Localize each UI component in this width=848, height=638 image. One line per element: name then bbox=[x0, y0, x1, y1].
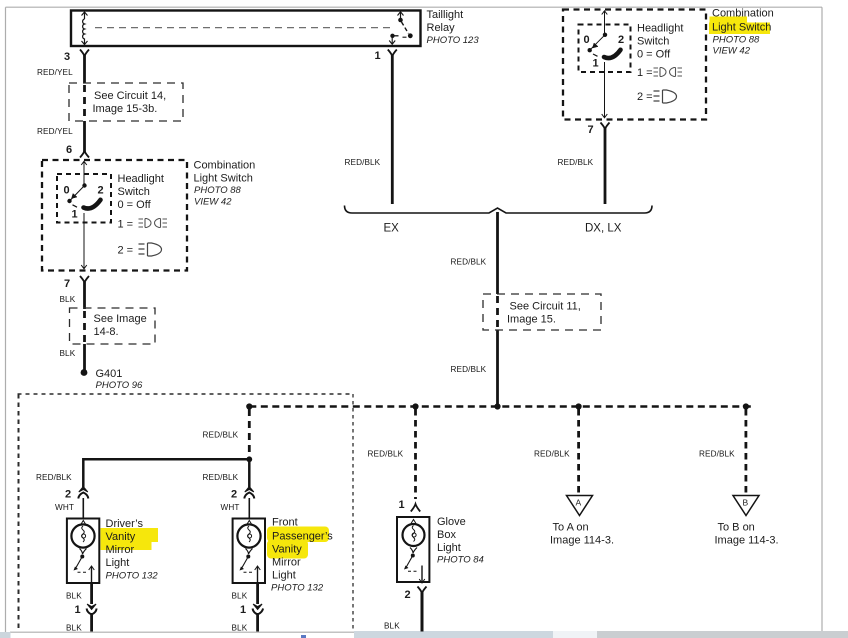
svg-text:RED/BLK: RED/BLK bbox=[345, 158, 381, 167]
svg-text:See Circuit 14,: See Circuit 14, bbox=[94, 90, 166, 102]
svg-text:PHOTO 96: PHOTO 96 bbox=[96, 380, 144, 391]
svg-text:Light Switch: Light Switch bbox=[712, 22, 771, 34]
svg-text:2: 2 bbox=[405, 589, 411, 601]
headlight switch S1 (left) outer box bbox=[42, 160, 187, 271]
switch position digits bbox=[64, 185, 104, 221]
svg-text:BLK: BLK bbox=[232, 592, 248, 601]
svg-text:VIEW 42: VIEW 42 bbox=[713, 46, 751, 57]
L2 ground wire bbox=[253, 583, 264, 632]
svg-text:RED/BLK: RED/BLK bbox=[36, 473, 72, 482]
svg-text:To A on: To A on bbox=[553, 522, 589, 534]
svg-text:Headlight: Headlight bbox=[637, 23, 683, 35]
svg-text:BLK: BLK bbox=[66, 592, 82, 601]
svg-text:EX: EX bbox=[384, 223, 400, 235]
interior lights dashed enclosure bbox=[18, 394, 354, 631]
headlight switch S2 inner box bbox=[579, 25, 631, 73]
svg-text:Mirror: Mirror bbox=[106, 544, 135, 556]
svg-text:VIEW 42: VIEW 42 bbox=[194, 197, 232, 208]
headlight switch S1 captions bbox=[118, 173, 164, 257]
combination light switch caption (top right) highlighted bbox=[709, 8, 774, 57]
svg-text:1: 1 bbox=[72, 209, 78, 221]
svg-text:2: 2 bbox=[98, 185, 104, 197]
svg-text:Switch: Switch bbox=[118, 186, 150, 198]
svg-text:A: A bbox=[576, 498, 582, 508]
passenger feed wire bbox=[203, 459, 250, 512]
ground G401 bbox=[81, 368, 143, 391]
svg-text:See Circuit 11,: See Circuit 11, bbox=[510, 301, 581, 313]
svg-text:PHOTO 84: PHOTO 84 bbox=[437, 555, 484, 566]
svg-text:Box: Box bbox=[437, 529, 456, 541]
svg-text:Passenger’s: Passenger’s bbox=[272, 531, 333, 543]
headlight switch S2 mechanism bbox=[588, 11, 621, 118]
svg-text:WHT: WHT bbox=[221, 503, 240, 512]
svg-text:B: B bbox=[743, 498, 749, 508]
combination light switch caption (left) bbox=[194, 160, 256, 208]
svg-text:RED/BLK: RED/BLK bbox=[558, 158, 594, 167]
svg-text:BLK: BLK bbox=[232, 624, 248, 633]
taillight relay K1 box bbox=[71, 11, 421, 47]
bus bracket EX / DX,LX bbox=[345, 206, 653, 235]
svg-text:RED/BLK: RED/BLK bbox=[699, 450, 735, 459]
L2 internals bbox=[237, 521, 260, 584]
headlight switch S2 (top right) outer box bbox=[563, 10, 706, 120]
svg-text:RED/BLK: RED/BLK bbox=[451, 365, 487, 374]
L1 internals bbox=[71, 521, 94, 584]
glove box branch dashed drop bbox=[368, 409, 421, 512]
off-page connector A bbox=[550, 496, 614, 547]
node junction dots bbox=[246, 403, 749, 409]
driver vanity caption bbox=[101, 518, 159, 582]
wire RED/BLK left (from relay pin1) bbox=[345, 50, 397, 205]
svg-text:1: 1 bbox=[399, 499, 405, 511]
svg-text:6: 6 bbox=[66, 144, 72, 156]
lamp icon position 1 bbox=[139, 219, 168, 228]
off-page connector B bbox=[715, 496, 779, 547]
L1 ground wire bbox=[87, 583, 97, 632]
center wire RED/BLK bbox=[496, 212, 499, 405]
svg-text:RED/BLK: RED/BLK bbox=[534, 450, 570, 459]
relay switch contacts bbox=[389, 12, 412, 44]
svg-text:BLK: BLK bbox=[60, 349, 76, 358]
svg-text:7: 7 bbox=[588, 124, 594, 136]
glove box caption bbox=[437, 516, 484, 566]
branch to B dashed drop bbox=[699, 409, 746, 494]
svg-text:BLK: BLK bbox=[66, 624, 82, 633]
svg-text:PHOTO 123: PHOTO 123 bbox=[427, 35, 480, 46]
svg-text:Light: Light bbox=[106, 557, 130, 569]
svg-text:Switch: Switch bbox=[637, 36, 669, 48]
lamp icon position 1 (S2) bbox=[654, 68, 683, 77]
connector pair on driver feed bbox=[78, 487, 88, 519]
svg-text:Driver’s: Driver’s bbox=[106, 518, 144, 530]
pin 6 bbox=[66, 142, 89, 158]
switch S2 position digits bbox=[584, 34, 625, 70]
svg-text:To B on: To B on bbox=[718, 522, 755, 534]
svg-text:WHT: WHT bbox=[55, 503, 74, 512]
svg-text:1: 1 bbox=[75, 604, 81, 616]
svg-text:PHOTO 88: PHOTO 88 bbox=[713, 35, 761, 46]
svg-text:RED/YEL: RED/YEL bbox=[37, 68, 73, 77]
svg-text:PHOTO 88: PHOTO 88 bbox=[194, 185, 242, 196]
see circuit 14 note box bbox=[69, 83, 183, 121]
svg-text:G401: G401 bbox=[96, 368, 123, 380]
svg-text:Image 114-3.: Image 114-3. bbox=[715, 535, 779, 547]
svg-text:Light: Light bbox=[437, 542, 461, 554]
svg-text:1 =: 1 = bbox=[637, 67, 653, 79]
headlight switch S1 mechanism bbox=[67, 161, 100, 269]
wire across to driver light bbox=[83, 459, 249, 487]
wire RED/YEL from relay pin 3 bbox=[83, 55, 86, 142]
svg-text:Image 114-3.: Image 114-3. bbox=[550, 535, 614, 547]
svg-text:Image 15.: Image 15. bbox=[507, 314, 556, 326]
svg-text:Vanity: Vanity bbox=[272, 544, 302, 556]
svg-text:Light Switch: Light Switch bbox=[194, 173, 253, 185]
headlight switch S1 inner box bbox=[57, 174, 111, 223]
relay label bbox=[427, 9, 480, 46]
pin 7 (right switch) bbox=[588, 123, 610, 137]
passenger vanity light L2 bbox=[233, 519, 265, 584]
svg-text:0: 0 bbox=[64, 185, 70, 197]
passenger vanity caption bbox=[267, 517, 333, 594]
svg-text:1: 1 bbox=[240, 604, 246, 616]
svg-text:0 = Off: 0 = Off bbox=[637, 49, 671, 61]
L3 internals bbox=[403, 520, 425, 584]
svg-text:Headlight: Headlight bbox=[118, 173, 164, 185]
svg-text:See Image: See Image bbox=[94, 313, 147, 325]
headlight switch S2 captions bbox=[637, 23, 683, 104]
wire BLK to ground bbox=[83, 282, 86, 371]
node at vanity split bbox=[246, 456, 252, 462]
relay internal dashed link bbox=[95, 27, 393, 29]
svg-text:DX, LX: DX, LX bbox=[585, 223, 622, 235]
svg-text:Glove: Glove bbox=[437, 516, 466, 528]
pin 7 (left switch) bbox=[64, 276, 89, 290]
svg-text:Image 15-3b.: Image 15-3b. bbox=[93, 103, 158, 115]
branch to A dashed drop bbox=[534, 409, 579, 494]
svg-text:3: 3 bbox=[64, 51, 70, 63]
lamp icon position 2 (S2) bbox=[654, 90, 677, 103]
glove box light L3 bbox=[397, 517, 429, 582]
driver feed labels bbox=[36, 473, 74, 512]
junction bus dashed wire bbox=[249, 405, 752, 407]
svg-text:Front: Front bbox=[272, 517, 298, 529]
svg-text:14-8.: 14-8. bbox=[94, 326, 119, 338]
svg-text:PHOTO 132: PHOTO 132 bbox=[106, 571, 159, 582]
svg-text:1 =: 1 = bbox=[118, 219, 134, 231]
svg-text:PHOTO 132: PHOTO 132 bbox=[271, 583, 324, 594]
svg-text:BLK: BLK bbox=[60, 295, 76, 304]
svg-text:RED/BLK: RED/BLK bbox=[203, 473, 239, 482]
L3 ground wire bbox=[405, 587, 427, 632]
svg-text:RED/BLK: RED/BLK bbox=[203, 431, 239, 440]
driver vanity light L1 bbox=[67, 519, 99, 584]
svg-text:Vanity: Vanity bbox=[106, 531, 136, 543]
svg-text:RED/BLK: RED/BLK bbox=[451, 258, 487, 267]
svg-text:2: 2 bbox=[65, 489, 71, 501]
svg-text:0: 0 bbox=[584, 34, 590, 46]
svg-text:Mirror: Mirror bbox=[272, 557, 301, 569]
svg-text:2: 2 bbox=[618, 34, 624, 46]
see image 14-8 note box bbox=[70, 308, 156, 344]
bottom scrollbar band bbox=[0, 631, 848, 638]
see circuit 11 note box bbox=[483, 294, 601, 330]
svg-text:2 =: 2 = bbox=[118, 245, 134, 257]
svg-text:Taillight: Taillight bbox=[427, 9, 464, 21]
svg-text:1: 1 bbox=[375, 50, 381, 62]
svg-text:RED/BLK: RED/BLK bbox=[368, 450, 404, 459]
vanity branch dashed drop bbox=[203, 409, 250, 456]
svg-text:Combination: Combination bbox=[712, 8, 774, 20]
svg-text:2: 2 bbox=[231, 489, 237, 501]
svg-text:0 = Off: 0 = Off bbox=[118, 199, 152, 211]
pin 3 bbox=[64, 50, 89, 64]
svg-text:2 =: 2 = bbox=[637, 91, 653, 103]
lamp icon position 2 bbox=[139, 243, 162, 256]
svg-text:RED/YEL: RED/YEL bbox=[37, 127, 73, 136]
relay coil bbox=[82, 12, 88, 45]
svg-text:Combination: Combination bbox=[194, 160, 256, 172]
svg-text:7: 7 bbox=[64, 278, 70, 290]
connector pair on passenger feed bbox=[244, 487, 254, 519]
svg-text:BLK: BLK bbox=[384, 622, 400, 631]
wire RED/BLK right bbox=[558, 128, 606, 204]
svg-text:1: 1 bbox=[593, 58, 599, 70]
svg-text:Light: Light bbox=[272, 570, 296, 582]
svg-text:Relay: Relay bbox=[427, 22, 456, 34]
